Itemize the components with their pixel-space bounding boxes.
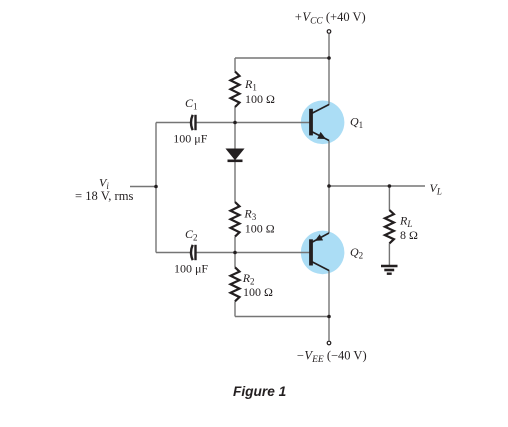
VCC terminal circle: [327, 30, 331, 34]
ground: [381, 266, 398, 274]
transistor Q2 (PNP): [311, 233, 329, 271]
wire input stub: [130, 186, 156, 188]
svg-text:C2: C2: [185, 227, 198, 243]
svg-text:Q1: Q1: [350, 115, 363, 131]
wire bottom rail horizontal: [235, 316, 329, 318]
wire R3 bottom to node B: [234, 237, 236, 253]
resistor R3: [231, 202, 240, 237]
diode D1: [227, 149, 244, 161]
wire node A to diode anode: [234, 123, 236, 150]
wire node B to Q2 base: [235, 252, 311, 254]
wire Q1 emitter down to output node: [328, 141, 330, 187]
wire R1 bottom to node A: [234, 107, 236, 123]
node bottom rail junction: [327, 315, 331, 319]
svg-text:100 μF: 100 μF: [173, 131, 207, 145]
wire C2 left (input rail to C2): [156, 252, 191, 254]
wire bottom rail junction to VEE terminal: [328, 317, 330, 341]
wire RL bottom to ground: [388, 243, 390, 265]
svg-text:−VEE (−40 V): −VEE (−40 V): [296, 349, 367, 366]
svg-text:+VCC (+40 V): +VCC (+40 V): [294, 10, 366, 27]
svg-text:100 μF: 100 μF: [174, 262, 208, 276]
svg-text:100 Ω: 100 Ω: [243, 285, 273, 299]
node input stub to rail: [154, 185, 158, 189]
capacitor C2: [191, 245, 196, 260]
node output junction: [327, 184, 331, 188]
svg-text:100 Ω: 100 Ω: [245, 222, 275, 236]
svg-text:VL: VL: [430, 181, 442, 197]
svg-text:Q2: Q2: [350, 245, 363, 261]
wire output node to VL: [329, 185, 425, 187]
node A (R1/C1/diode/base Q1): [233, 121, 237, 125]
wire VCC rail down to Q1 collector: [328, 58, 330, 105]
wire diode cathode to R3: [234, 161, 236, 202]
wire node B to R2: [234, 253, 236, 267]
transistor Q1 halo: [301, 101, 345, 145]
wire top rail horizontal: [235, 57, 329, 59]
VEE terminal circle: [327, 341, 331, 345]
wire R2 bottom to bottom rail: [234, 301, 236, 316]
node RL junction: [388, 184, 392, 188]
wire C2 right to node B: [196, 252, 236, 254]
transistor Q2 halo: [301, 231, 345, 275]
svg-text:R1: R1: [244, 77, 257, 93]
wire Q2 emitter up to output node: [328, 186, 330, 233]
svg-text:C1: C1: [185, 96, 198, 112]
transistor Q1 (NPN): [311, 105, 329, 141]
resistor R2: [231, 267, 240, 301]
resistor R1: [231, 72, 240, 108]
wire VCC terminal to top-rail junction: [328, 34, 330, 58]
node top rail junction: [327, 56, 331, 60]
wire input rail vertical: [155, 123, 157, 253]
svg-text:8 Ω: 8 Ω: [400, 228, 418, 242]
wire RL top: [388, 186, 390, 210]
wire node A to Q1 base: [235, 122, 311, 124]
capacitor C1: [191, 115, 196, 130]
wire C1 right to node A: [196, 122, 236, 124]
node B (R3/C2/R2/base Q2): [233, 251, 237, 255]
wire Q2 collector down to bottom rail: [328, 270, 330, 317]
svg-text:RL: RL: [399, 213, 412, 229]
svg-text:Figure 1: Figure 1: [233, 384, 286, 399]
wire C1 left (input rail to C1): [156, 122, 191, 124]
svg-text:100 Ω: 100 Ω: [245, 92, 275, 106]
svg-text:= 18 V, rms: = 18 V, rms: [75, 189, 134, 203]
svg-text:R3: R3: [243, 207, 256, 223]
wire top rail to R1: [234, 58, 236, 72]
resistor RL: [385, 210, 394, 243]
